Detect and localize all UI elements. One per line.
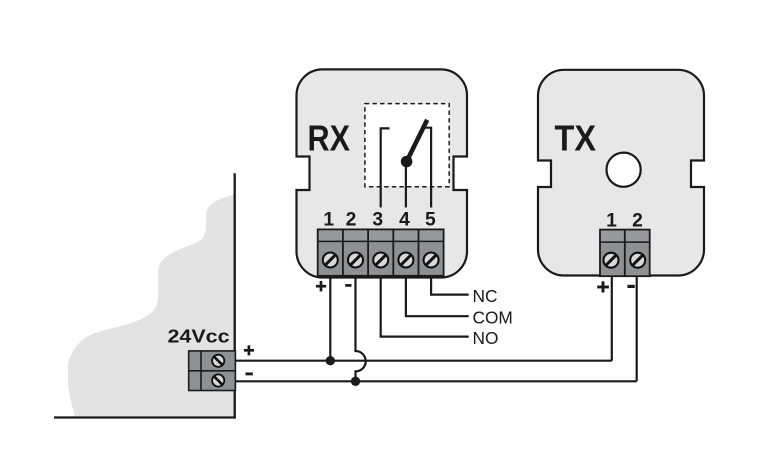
svg-text:TX: TX — [555, 118, 597, 159]
wire RX terminal 5 to NC — [431, 276, 469, 295]
relay pivot dot — [401, 156, 413, 168]
relay switch arm — [407, 120, 428, 162]
wire - bus (24Vcc - to TX terminal 2, with RX tap) — [235, 380, 636, 382]
RX terminal strip — [318, 229, 444, 275]
svg-text:RX: RX — [308, 118, 351, 159]
svg-text:4: 4 — [399, 210, 410, 231]
label - (24Vcc) — [246, 372, 253, 375]
svg-text:COM: COM — [473, 308, 513, 328]
TX terminal screw 2 — [630, 253, 645, 268]
relay COM line (pin 4) — [405, 162, 407, 208]
wire RX terminal 2 (-) drop with hop over + bus — [356, 276, 366, 382]
RX device body — [297, 69, 468, 277]
label TX — [555, 118, 597, 159]
svg-text:NO: NO — [473, 328, 499, 348]
RX pin number 3 — [372, 210, 383, 231]
label NC — [473, 286, 498, 306]
label - (RX terminal 2) — [345, 284, 351, 287]
svg-text:2: 2 — [346, 210, 357, 231]
svg-text:NC: NC — [473, 286, 498, 306]
label + (24Vcc) — [244, 345, 254, 355]
wire RX terminal 4 to COM — [406, 276, 469, 316]
RX pin number 2 — [346, 210, 357, 231]
wall edge vertical line — [234, 173, 236, 418]
svg-text:24Vcc: 24Vcc — [168, 325, 230, 346]
RX terminal screw 4 — [398, 253, 413, 268]
24Vcc power supply terminal block — [189, 351, 236, 391]
24Vcc screw + — [212, 355, 224, 367]
RX pin number 1 — [323, 210, 334, 231]
RX terminal screw 3 — [373, 253, 388, 268]
TX pin number 2 — [632, 211, 643, 232]
wire RX terminal 1 (+) drop — [329, 276, 331, 361]
RX pin number 4 — [399, 210, 410, 231]
label NO — [473, 328, 499, 348]
wire TX terminal 2 (-) drop — [636, 276, 638, 381]
svg-text:5: 5 — [425, 210, 436, 231]
TX lens hole — [607, 153, 641, 187]
junction dot on - bus — [351, 377, 360, 386]
24Vcc screw - — [212, 374, 224, 386]
wire RX terminal 3 to NO — [381, 276, 469, 337]
label COM — [473, 308, 513, 328]
relay NC contact line (pin 5) — [425, 128, 431, 208]
svg-text:3: 3 — [372, 210, 383, 231]
junction dot on + bus — [326, 356, 335, 365]
TX terminal strip — [600, 230, 650, 277]
RX terminal screw 1 — [323, 253, 338, 268]
wire + bus (24Vcc + to TX terminal 1, with RX tap) — [235, 360, 611, 362]
TX terminal screw 1 — [604, 253, 619, 268]
label 24Vcc — [168, 325, 230, 346]
RX terminal screw 5 — [424, 253, 439, 268]
relay NO contact line (pin 3) — [381, 128, 390, 207]
label RX — [308, 118, 351, 159]
svg-text:1: 1 — [606, 211, 617, 232]
RX terminal screw 2 — [348, 253, 363, 268]
wire TX terminal 1 (+) drop — [611, 276, 613, 361]
svg-text:1: 1 — [323, 210, 334, 231]
TX pin number 1 — [606, 211, 617, 232]
relay contact dashed box — [365, 104, 449, 187]
label + (TX terminal 1) — [597, 281, 609, 292]
label + (RX terminal 1) — [316, 281, 326, 291]
svg-text:2: 2 — [632, 211, 643, 232]
TX device body — [538, 70, 704, 276]
wall (grey cross-section) — [68, 194, 236, 418]
label - (TX terminal 2) — [627, 285, 634, 288]
RX pin number 5 — [425, 210, 436, 231]
ground / floor line — [54, 416, 236, 418]
